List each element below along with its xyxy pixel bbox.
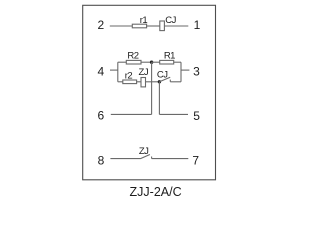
contact CJ blade <box>159 77 170 82</box>
svg-text:7: 7 <box>192 153 199 167</box>
resistor R2 <box>126 60 141 64</box>
coil ZJ <box>141 78 146 87</box>
wire pin3 stub <box>181 69 189 71</box>
svg-text:CJ: CJ <box>165 15 176 26</box>
svg-text:3: 3 <box>193 65 200 79</box>
wire CJ coil to pin 1 <box>164 25 188 27</box>
svg-text:R1: R1 <box>164 51 175 62</box>
node A junction dot <box>150 61 153 64</box>
contact ZJ blade <box>141 155 150 159</box>
svg-text:ZJ: ZJ <box>139 67 149 78</box>
wire ZJ coil to node B <box>146 81 160 83</box>
wire bracket to r2 <box>118 81 123 83</box>
wire node B down <box>158 82 160 115</box>
wire pin 8 <box>110 158 140 160</box>
svg-text:R2: R2 <box>127 51 138 62</box>
wire R2 to node A <box>141 61 152 63</box>
svg-text:ZJ: ZJ <box>139 146 149 157</box>
svg-text:r2: r2 <box>125 70 133 81</box>
wire r1 to CJ coil <box>147 25 160 27</box>
resistor R1 <box>160 60 174 64</box>
coil CJ (top) <box>160 21 165 31</box>
wire to pin 7 <box>152 158 189 160</box>
wire bracket to R2 <box>118 61 127 63</box>
svg-text:4: 4 <box>97 65 104 79</box>
svg-text:2: 2 <box>97 18 104 32</box>
svg-text:ZJJ-2A/C: ZJJ-2A/C <box>130 185 182 199</box>
wire to pin 5 <box>159 113 188 115</box>
svg-text:5: 5 <box>193 109 200 123</box>
wire node A down to pin 6 wire <box>151 62 153 114</box>
svg-text:1: 1 <box>194 18 201 32</box>
svg-text:8: 8 <box>98 153 105 167</box>
wire pin2 to r1 <box>110 25 133 27</box>
svg-text:r1: r1 <box>140 15 148 26</box>
wire pin4 stub <box>110 69 118 71</box>
wire r2 to ZJ coil <box>137 81 141 83</box>
wire pin 6 <box>111 113 152 115</box>
wire R1 to right bracket <box>174 61 181 63</box>
wire contact to right bracket <box>170 81 181 83</box>
relay case outline <box>83 5 216 180</box>
contact ZJ fixed tick <box>151 157 153 159</box>
svg-text:6: 6 <box>97 108 104 122</box>
resistor r2 <box>123 80 137 84</box>
svg-text:CJ: CJ <box>157 69 168 80</box>
wire node A to R1 <box>152 61 160 63</box>
contact CJ fixed tick <box>169 80 171 82</box>
wire right bracket vertical <box>180 62 182 82</box>
node B junction dot <box>158 80 161 83</box>
resistor r1 <box>132 24 146 28</box>
wire left bracket vertical <box>117 62 119 82</box>
